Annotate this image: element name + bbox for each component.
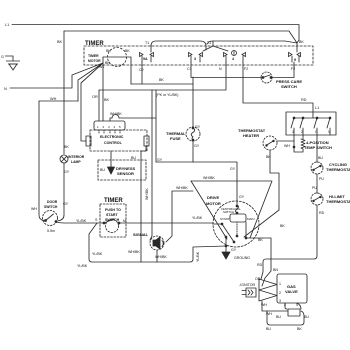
- svg-text:SWITCH: SWITCH: [105, 218, 120, 222]
- svg-text:5: 5: [119, 125, 121, 129]
- svg-text:VALVE: VALVE: [285, 289, 298, 294]
- svg-text:BU: BU: [100, 168, 105, 172]
- svg-text:BK: BK: [258, 238, 263, 242]
- svg-text:TIMER: TIMER: [88, 54, 99, 58]
- svg-text:WH/BK: WH/BK: [110, 112, 122, 116]
- svg-text:S: S: [95, 218, 98, 222]
- svg-text:V: V: [328, 130, 331, 134]
- svg-text:BK: BK: [125, 49, 130, 53]
- svg-text:BK: BK: [159, 78, 164, 82]
- svg-text:W1: W1: [99, 65, 104, 69]
- svg-text:2: 2: [301, 130, 303, 134]
- svg-text:WH: WH: [50, 97, 57, 101]
- svg-text:BU: BU: [276, 315, 281, 319]
- svg-text:YL/BK: YL/BK: [92, 252, 103, 256]
- svg-text:F2: F2: [291, 67, 295, 71]
- svg-text:BU: BU: [131, 156, 136, 160]
- svg-text:FUSE: FUSE: [170, 136, 181, 141]
- svg-text:BK: BK: [106, 49, 111, 53]
- svg-text:YL/BK: YL/BK: [77, 264, 88, 268]
- svg-text:YL/BK: YL/BK: [196, 251, 200, 262]
- svg-text:RD: RD: [301, 98, 307, 102]
- svg-text:BK: BK: [105, 61, 110, 65]
- svg-text:YL/BK: YL/BK: [192, 216, 203, 220]
- svg-text:GY: GY: [230, 167, 236, 171]
- svg-text:PU: PU: [319, 177, 324, 181]
- svg-text:C2: C2: [139, 68, 144, 72]
- svg-text:THERMOSTAT: THERMOSTAT: [326, 167, 350, 172]
- svg-text:RD: RD: [257, 263, 263, 267]
- svg-text:F2: F2: [244, 67, 248, 71]
- svg-text:1: 1: [97, 125, 99, 129]
- svg-text:MOTOR: MOTOR: [206, 201, 221, 206]
- svg-text:GY: GY: [195, 125, 201, 129]
- svg-text:BK: BK: [104, 98, 110, 102]
- svg-text:THERMOSTAT: THERMOSTAT: [326, 199, 350, 204]
- svg-text:2: 2: [279, 291, 281, 295]
- svg-text:N: N: [219, 67, 222, 71]
- svg-text:4: 4: [232, 57, 234, 61]
- svg-text:SIGNAL: SIGNAL: [133, 232, 149, 237]
- svg-text:LAMP: LAMP: [71, 160, 81, 164]
- svg-text:BK: BK: [280, 224, 285, 228]
- svg-text:N: N: [4, 87, 7, 91]
- svg-text:1: 1: [292, 130, 294, 134]
- svg-text:9: 9: [294, 58, 296, 62]
- svg-text:BK: BK: [64, 145, 69, 149]
- svg-text:START: START: [106, 213, 119, 217]
- svg-text:PUSH TO: PUSH TO: [105, 208, 121, 212]
- svg-text:TIMER: TIMER: [104, 198, 123, 204]
- svg-text:GY: GY: [231, 248, 237, 252]
- svg-text:5.5m: 5.5m: [47, 229, 55, 233]
- svg-text:C1: C1: [187, 67, 192, 71]
- svg-text:9A: 9A: [143, 57, 148, 61]
- svg-text:SENSOR: SENSOR: [117, 171, 134, 176]
- svg-text:WH/BK: WH/BK: [128, 250, 140, 254]
- svg-text:BK: BK: [266, 155, 271, 159]
- svg-text:BU: BU: [266, 327, 271, 331]
- svg-text:RD: RD: [319, 211, 325, 215]
- svg-text:G: G: [1, 55, 4, 59]
- svg-text:BU: BU: [318, 156, 323, 160]
- svg-text:5: 5: [296, 303, 298, 307]
- svg-text:T1: T1: [145, 41, 149, 45]
- svg-text:MOTOR: MOTOR: [88, 59, 101, 63]
- svg-text:M: M: [123, 219, 126, 223]
- svg-text:3: 3: [279, 299, 281, 303]
- svg-text:L1: L1: [315, 106, 319, 110]
- svg-text:WH: WH: [266, 312, 272, 316]
- svg-text:HEATER: HEATER: [243, 133, 259, 138]
- svg-text:OR: OR: [255, 277, 261, 281]
- svg-text:PU: PU: [312, 186, 317, 190]
- svg-text:(PK or YL/BK): (PK or YL/BK): [156, 93, 179, 97]
- svg-text:DOOR: DOOR: [47, 200, 58, 204]
- svg-text:T1: T1: [207, 41, 211, 45]
- svg-text:L1: L1: [5, 23, 9, 27]
- svg-text:WH/BK: WH/BK: [155, 255, 167, 259]
- svg-text:WH/BK: WH/BK: [203, 176, 215, 180]
- svg-text:WH: WH: [284, 144, 290, 148]
- svg-text:TEMP SWITCH: TEMP SWITCH: [304, 145, 332, 150]
- svg-text:WH/BK: WH/BK: [176, 186, 188, 190]
- svg-text:WH: WH: [261, 303, 267, 307]
- svg-text:CONTROL: CONTROL: [104, 141, 123, 145]
- svg-text:WH: WH: [31, 207, 37, 211]
- svg-text:SWITCH: SWITCH: [44, 205, 58, 209]
- svg-text:4: 4: [114, 125, 116, 129]
- svg-text:GROUND: GROUND: [234, 256, 250, 260]
- svg-text:GY: GY: [157, 158, 163, 162]
- svg-text:INTERIOR: INTERIOR: [68, 155, 85, 159]
- svg-text:GY: GY: [239, 195, 245, 199]
- svg-text:BK: BK: [297, 327, 302, 331]
- svg-text:3: 3: [108, 125, 110, 129]
- svg-text:BN: BN: [273, 268, 278, 272]
- svg-text:GY: GY: [63, 202, 69, 206]
- svg-text:GY: GY: [64, 170, 70, 174]
- svg-text:2: 2: [103, 125, 105, 129]
- svg-text:C: C: [315, 130, 318, 134]
- svg-text:BU: BU: [304, 315, 309, 319]
- svg-text:ELECTRONIC: ELECTRONIC: [100, 135, 124, 139]
- svg-text:SWITCH: SWITCH: [281, 84, 297, 89]
- svg-text:-IGNITOR: -IGNITOR: [239, 283, 256, 287]
- svg-text:BK: BK: [299, 40, 304, 44]
- svg-text:TIMER: TIMER: [85, 41, 104, 47]
- svg-text:OR: OR: [92, 95, 98, 99]
- svg-text:START: START: [220, 217, 230, 221]
- svg-text:WH/BK: WH/BK: [145, 188, 149, 200]
- svg-text:MAIN: MAIN: [247, 217, 255, 221]
- svg-text:SWITCH: SWITCH: [223, 210, 234, 214]
- svg-text:4: 4: [284, 303, 286, 307]
- svg-text:1: 1: [279, 282, 281, 286]
- svg-text:BK: BK: [57, 40, 63, 44]
- svg-text:GY: GY: [194, 144, 200, 148]
- svg-text:3: 3: [194, 57, 196, 61]
- svg-text:YL/BK: YL/BK: [76, 219, 87, 223]
- svg-text:DRIVE: DRIVE: [207, 195, 220, 200]
